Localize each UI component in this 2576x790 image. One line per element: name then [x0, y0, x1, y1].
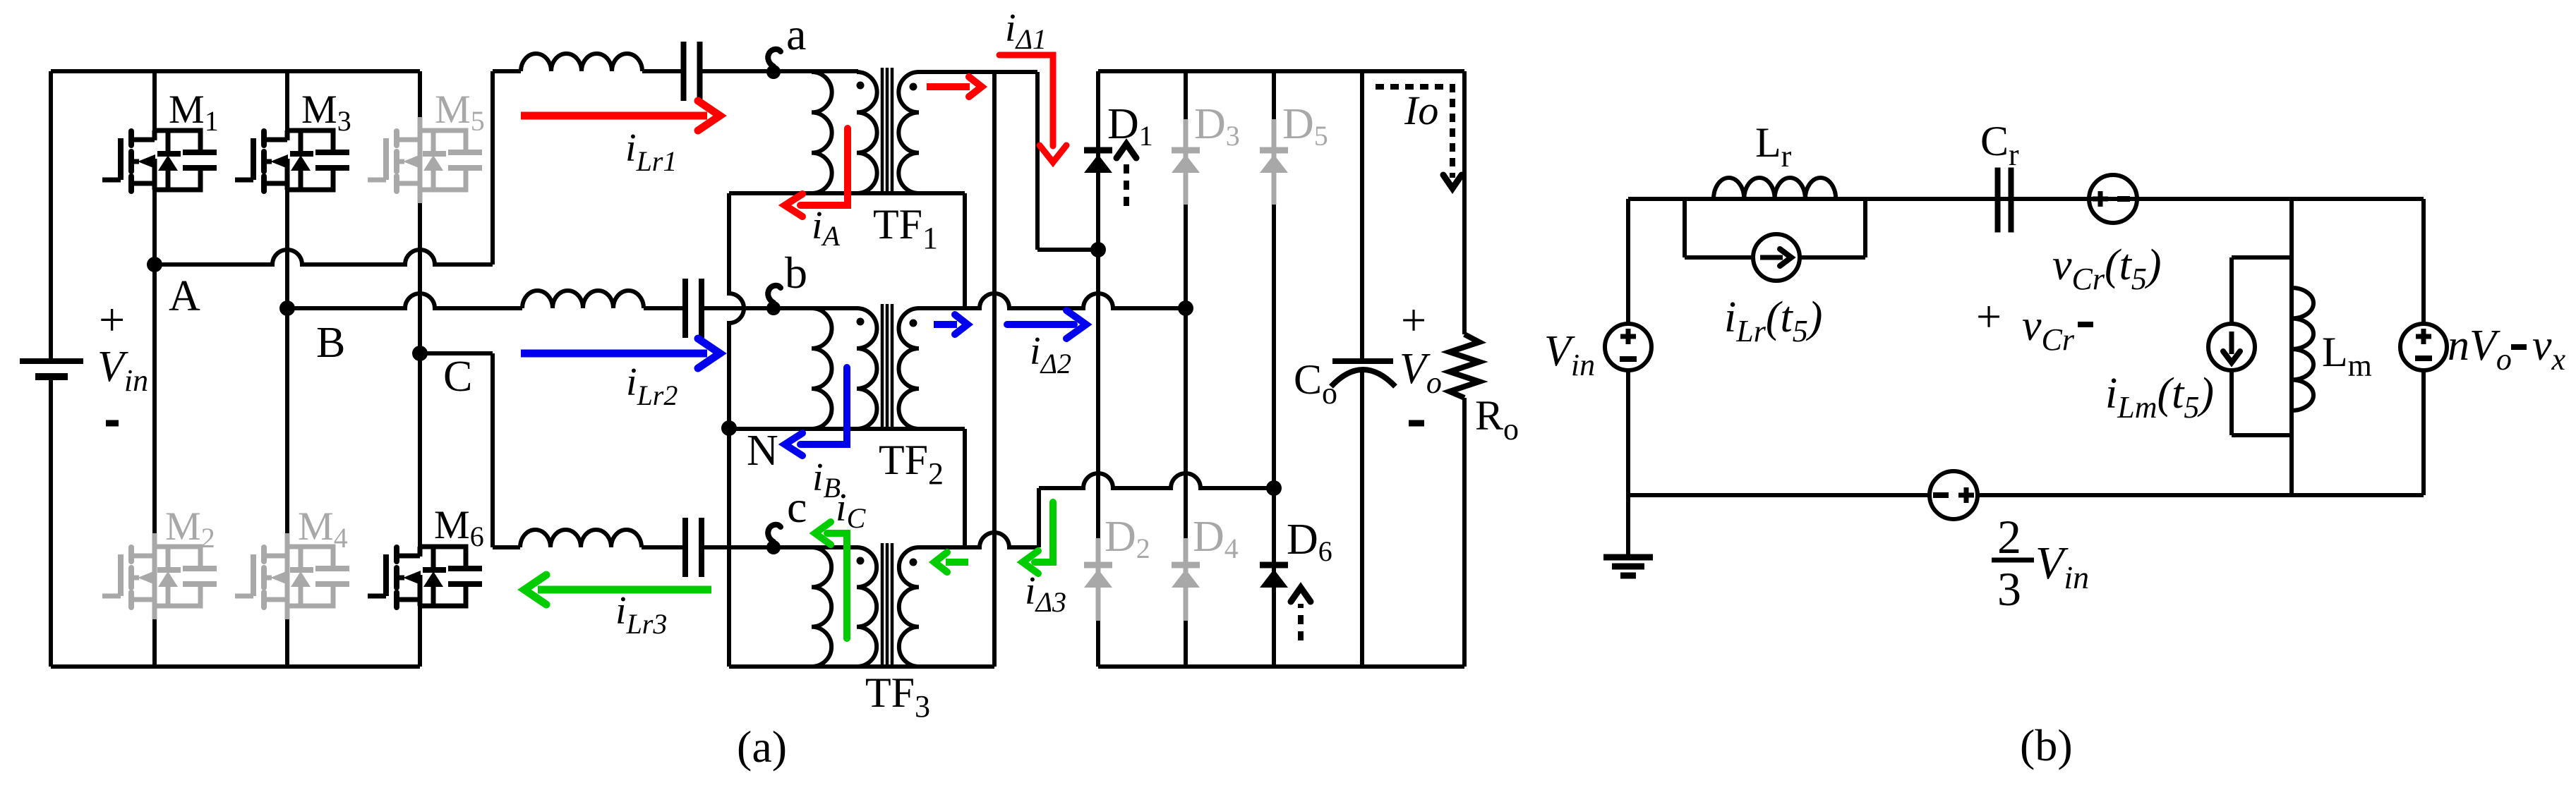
wire leg B — [285, 71, 289, 132]
node C — [412, 346, 428, 361]
wire top bus — [51, 69, 420, 73]
wire gray segment D2 — [1096, 538, 1101, 621]
svg-text:+: + — [1976, 291, 2002, 341]
svg-text:M5: M5 — [435, 87, 485, 137]
wire TF1 sec top — [919, 70, 1037, 74]
wire gray segment D5 — [1272, 119, 1277, 205]
source iLm(t5) — [2208, 324, 2255, 370]
transistor M3 — [287, 130, 333, 150]
svg-text:D3: D3 — [1194, 100, 1240, 152]
svg-text:nVo: nVo — [2448, 322, 2512, 377]
svg-text:M2: M2 — [165, 504, 215, 554]
wire leg C — [418, 71, 422, 132]
resistor Ro — [1450, 334, 1479, 398]
node b — [766, 301, 781, 315]
arrow iLr3 green — [538, 586, 711, 594]
wire iLm loop — [2232, 255, 2292, 260]
arrow green sec TF3 — [946, 559, 968, 566]
svg-text:iΔ1: iΔ1 — [1005, 6, 1047, 55]
transformer TF2 — [812, 308, 832, 429]
transistor M5 — [420, 130, 466, 150]
svg-text:Ro: Ro — [1475, 392, 1519, 446]
inductor Lr2 — [522, 291, 644, 308]
svg-text:a: a — [786, 9, 806, 59]
svg-text:b: b — [785, 248, 807, 298]
wire Lm branch — [2289, 199, 2294, 495]
source Vin b — [1626, 199, 1630, 324]
svg-text:+: + — [99, 294, 125, 346]
wire b bottom — [1628, 493, 1930, 497]
diode D1 — [1084, 147, 1112, 154]
wire Cr3 to node c — [704, 545, 858, 549]
svg-text:c: c — [787, 482, 807, 532]
svg-text:vCr: vCr — [2022, 302, 2075, 357]
arrow iLr2 blue — [521, 350, 707, 358]
svg-text:iLr3: iLr3 — [615, 589, 667, 640]
wire a-prime riser — [992, 72, 997, 667]
svg-text:iC: iC — [836, 486, 867, 534]
svg-text:D5: D5 — [1282, 100, 1328, 152]
wire gray segment M2 leg — [152, 533, 157, 619]
node B — [279, 300, 295, 316]
source nVo-vx — [2421, 199, 2426, 324]
svg-text:TF1: TF1 — [873, 201, 938, 255]
svg-text:(a): (a) — [737, 722, 787, 772]
svg-text:B: B — [316, 319, 345, 367]
node a-prime — [1090, 242, 1106, 257]
source iLr(t5) — [1753, 234, 1800, 281]
transistor M6 — [420, 547, 466, 566]
svg-text:iΔ3: iΔ3 — [1025, 569, 1066, 618]
wire rectifier bottom bus — [1098, 664, 1464, 669]
diode D4 — [1172, 562, 1200, 569]
wire phase A — [155, 250, 493, 265]
node N — [721, 420, 737, 436]
svg-text:iLm(t5): iLm(t5) — [2105, 370, 2214, 425]
svg-text:+: + — [1401, 295, 1426, 345]
wire phase B — [287, 293, 522, 308]
wire Lr2 to Cr2 — [644, 306, 684, 310]
wire Lr parallel loop — [1683, 199, 1687, 257]
inductor Lr1 — [521, 54, 642, 71]
arrow blue sec TF2 — [934, 321, 957, 328]
svg-text:3: 3 — [1997, 562, 2021, 616]
svg-text:M6: M6 — [434, 503, 484, 552]
inductor Lr b — [1714, 178, 1836, 199]
arrow Io dashed — [1376, 87, 1452, 178]
svg-text:Io: Io — [1404, 87, 1438, 133]
wire Lr1 to Cr1 — [642, 69, 682, 73]
svg-text:M1: M1 — [169, 87, 219, 137]
arrow dashed D1 — [1124, 162, 1129, 206]
wire bottom bus — [51, 664, 420, 669]
source 2/3 Vin — [1930, 471, 1978, 519]
capacitor Cr1 — [681, 42, 687, 101]
svg-text:TF3: TF3 — [865, 669, 930, 724]
node a — [766, 65, 781, 79]
wire gray segment D4 — [1184, 538, 1188, 621]
node c — [766, 540, 781, 554]
diode D6 — [1260, 562, 1288, 569]
ground — [1626, 495, 1630, 555]
arrow red sec TF1 — [927, 83, 970, 90]
svg-text:Vin: Vin — [2035, 537, 2089, 595]
svg-text:D4: D4 — [1193, 513, 1239, 564]
node b-prime — [1178, 300, 1193, 316]
arrow iD2 blue — [1007, 321, 1074, 328]
capacitor Cr2 — [682, 279, 688, 338]
diode D3 — [1172, 147, 1200, 154]
wire Cr1 to node a — [702, 69, 858, 73]
capacitor Co — [1332, 358, 1393, 364]
svg-text:iLr2: iLr2 — [626, 360, 678, 411]
svg-text:Cr: Cr — [1980, 118, 2019, 172]
svg-text:A: A — [169, 272, 200, 320]
svg-text:2: 2 — [1997, 510, 2021, 564]
wire gray segment M5 leg — [418, 117, 423, 203]
svg-text:M3: M3 — [301, 87, 351, 137]
svg-text:N: N — [747, 427, 778, 475]
svg-text:D6: D6 — [1287, 516, 1332, 567]
capacitor Cr3 — [682, 518, 688, 577]
wire gray segment D3 — [1184, 119, 1188, 205]
wire TF2 sec top b-prime — [919, 293, 1186, 308]
transformer TF3 — [812, 547, 831, 667]
wire rectifier top bus — [1098, 69, 1464, 73]
arrow iD1 red — [999, 55, 1053, 146]
arrow iC green — [827, 533, 847, 638]
source vCr(t5) — [2089, 175, 2137, 223]
svg-text:Vin: Vin — [1544, 327, 1595, 382]
wire Co leg — [1360, 71, 1364, 361]
svg-text:M4: M4 — [298, 504, 348, 554]
svg-text:vx: vx — [2532, 322, 2566, 377]
svg-text:C: C — [443, 353, 472, 401]
inductor Lr3 — [520, 530, 642, 547]
wire TF2 bottom — [729, 427, 965, 431]
svg-text:Vo: Vo — [1400, 345, 1442, 400]
wire TF3 sec top c-prime — [919, 533, 1039, 547]
wire b top — [1628, 197, 2424, 201]
svg-text:D2: D2 — [1105, 513, 1150, 564]
wire Cr2 to node b — [704, 306, 858, 310]
arrow iLr1 red — [521, 112, 707, 120]
arrow iB blue — [800, 367, 847, 444]
diode D5 — [1260, 147, 1288, 154]
wire N riser — [729, 193, 744, 667]
wire leg D5 D6 — [1272, 71, 1276, 667]
svg-text:iA: iA — [812, 204, 841, 252]
arrow iD3 green — [1035, 502, 1053, 562]
wire leg D1 D2 — [1096, 71, 1100, 667]
capacitor Cr b — [1995, 168, 2001, 233]
battery Vin — [20, 358, 83, 364]
wire TF1 sec bottom riser — [963, 193, 967, 308]
svg-text:(b): (b) — [2020, 720, 2073, 770]
wire leg D3 D4 — [1184, 71, 1188, 667]
node A — [147, 257, 162, 272]
wire TF2 sec bottom riser — [963, 429, 967, 547]
svg-text:iLr(t5): iLr(t5) — [1724, 293, 1822, 348]
wire gray segment M4 leg — [285, 533, 290, 619]
wire TF3 bottom — [729, 664, 994, 669]
svg-text:Lm: Lm — [2322, 329, 2372, 383]
svg-text:Lr: Lr — [1755, 119, 1792, 174]
svg-text:iLr1: iLr1 — [625, 126, 677, 177]
wire phase C — [420, 351, 493, 355]
transistor M2 — [155, 547, 200, 566]
wire Lr3 to Cr3 — [642, 545, 684, 549]
svg-text:Co: Co — [1294, 356, 1337, 411]
wire TF1 bottom — [729, 191, 965, 195]
inductor Lm — [2292, 288, 2313, 411]
arrow iA red — [800, 128, 848, 205]
transistor M1 — [155, 130, 200, 150]
transformer TF1 — [812, 72, 832, 193]
node c-prime — [1266, 480, 1282, 496]
svg-text:Vin: Vin — [97, 343, 148, 398]
svg-text:TF2: TF2 — [879, 437, 944, 491]
diode D2 — [1084, 562, 1112, 569]
wire leg A — [152, 71, 157, 132]
arrow dashed D6 — [1298, 604, 1304, 640]
svg-text:vCr(t5): vCr(t5) — [2052, 241, 2162, 296]
transistor M4 — [287, 547, 333, 566]
wire Ro leg — [1462, 71, 1467, 334]
